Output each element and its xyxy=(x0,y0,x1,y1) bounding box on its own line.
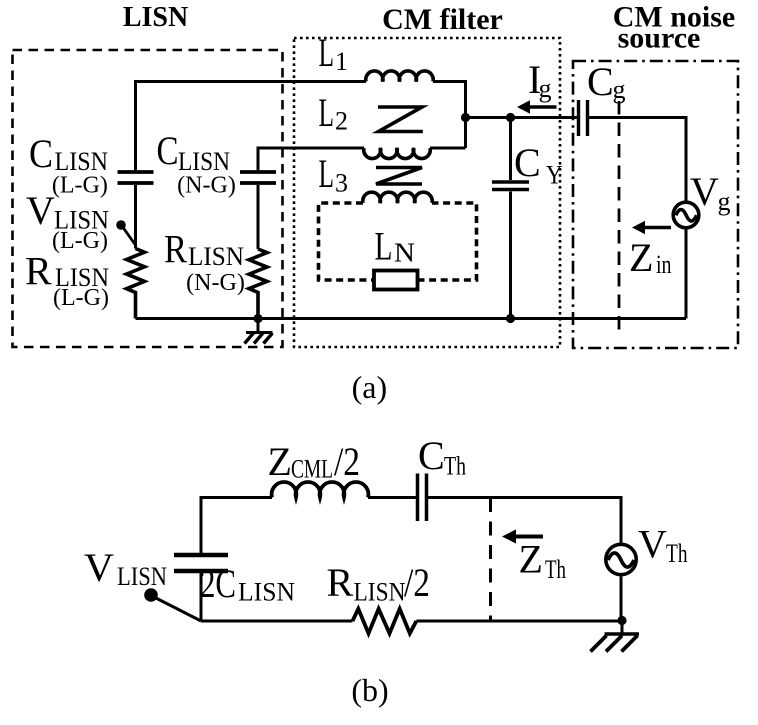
svg-text:(a): (a) xyxy=(352,369,388,405)
resistor RLISN (N-G) xyxy=(249,249,267,319)
svg-text:source: source xyxy=(618,22,701,55)
svg-text:L: L xyxy=(319,90,335,135)
capacitor CLISN (N-G) xyxy=(240,172,276,183)
svg-text:in: in xyxy=(656,250,672,279)
svg-text:Z: Z xyxy=(268,439,292,484)
svg-text:C: C xyxy=(514,140,541,185)
svg-text:C: C xyxy=(29,131,53,176)
svg-text:2C: 2C xyxy=(200,561,236,606)
svg-text:V: V xyxy=(690,169,719,214)
inductor LN (rectangle) xyxy=(374,271,418,290)
coupling mark Z1 (L1-L2) xyxy=(378,107,423,132)
wire: L2 right to node column xyxy=(430,147,466,150)
ground (a) xyxy=(257,319,260,333)
resistor RLISN/2 xyxy=(353,609,417,634)
capacitor CLISN (L-G) xyxy=(118,172,154,183)
svg-text:LISN: LISN xyxy=(117,562,167,591)
node B junction dot xyxy=(506,113,515,122)
svg-text:(L-G): (L-G) xyxy=(53,285,109,311)
svg-text:R: R xyxy=(327,560,354,605)
bottom wire (b) left xyxy=(201,620,353,623)
wire cap to resistor (L-G) xyxy=(134,185,137,249)
svg-text:/2: /2 xyxy=(404,560,430,605)
svg-text:Th: Th xyxy=(545,555,566,584)
svg-text:Z: Z xyxy=(519,537,543,582)
svg-text:V: V xyxy=(638,522,667,567)
svg-text:(b): (b) xyxy=(351,672,388,708)
svg-text:g: g xyxy=(718,187,731,216)
svg-text:N: N xyxy=(394,238,415,268)
wire Cg to right corner xyxy=(589,118,686,201)
Zin arrow xyxy=(642,226,671,230)
svg-text:LISN: LISN xyxy=(354,578,406,607)
capacitor CY xyxy=(509,118,512,181)
svg-text:2: 2 xyxy=(335,107,348,136)
svg-text:LISN: LISN xyxy=(238,578,295,607)
LISN box (dashed) xyxy=(13,50,283,347)
svg-text:Y: Y xyxy=(546,161,563,190)
svg-text:Th: Th xyxy=(444,452,466,481)
inductor L3 xyxy=(363,192,432,203)
bottom wire (a) xyxy=(136,317,687,320)
svg-text:L: L xyxy=(319,151,335,196)
wire: line L top (left vertical + horizontal to L1) xyxy=(136,82,367,173)
svg-text:C: C xyxy=(418,433,445,478)
svg-text:C: C xyxy=(587,59,614,104)
svg-text:CM filter: CM filter xyxy=(382,3,503,36)
coupling mark Z2 (L2-L3) xyxy=(376,168,422,185)
inductor L2 xyxy=(364,148,431,159)
CM noise source box (dash-dot) xyxy=(573,61,738,348)
node A junction dot xyxy=(461,113,470,122)
svg-text:(N-G): (N-G) xyxy=(177,173,236,199)
svg-text:R: R xyxy=(164,227,187,272)
top wire (b) left xyxy=(201,498,272,554)
source VTh xyxy=(606,544,636,574)
svg-text:V: V xyxy=(84,545,114,590)
svg-text:(L-G): (L-G) xyxy=(52,228,108,254)
svg-text:(N-G): (N-G) xyxy=(186,270,245,296)
svg-text:/2: /2 xyxy=(334,439,360,484)
svg-text:Th: Th xyxy=(666,539,688,568)
node VLISN (L-G) dot + tap xyxy=(116,220,126,230)
junction dot CY-bottom xyxy=(506,314,515,323)
capacitor 2CLISN xyxy=(174,555,228,571)
svg-text:LISN: LISN xyxy=(123,2,188,33)
wire CTh to right corner xyxy=(428,498,621,543)
inductor ZCML/2 xyxy=(272,482,369,498)
CM filter box (dotted) xyxy=(294,38,560,347)
wire coil to CTh xyxy=(368,496,416,499)
svg-text:g: g xyxy=(539,74,552,103)
node VLISN dot + tap xyxy=(144,588,158,602)
wire node A to node B xyxy=(466,116,579,119)
svg-text:L: L xyxy=(375,224,393,269)
inductor L1 xyxy=(366,71,433,82)
wire: line N (left vertical + horizontal to L2) xyxy=(258,148,364,172)
wire: L1 right to node column xyxy=(433,82,466,149)
svg-text:V: V xyxy=(26,188,55,233)
svg-text:g: g xyxy=(613,75,626,104)
ZTh arrow xyxy=(514,535,543,539)
capacitor CTh xyxy=(418,474,427,522)
impedance Zin dashed line xyxy=(618,101,621,331)
svg-text:Z: Z xyxy=(629,235,653,280)
wire cap to resistor (N-G) xyxy=(257,185,260,249)
svg-text:C: C xyxy=(157,128,179,173)
junction dot ground xyxy=(253,314,262,323)
ground (b) xyxy=(621,621,624,634)
svg-text:L: L xyxy=(319,30,335,75)
current Ig arrow xyxy=(527,105,557,109)
svg-text:3: 3 xyxy=(335,169,348,198)
resistor RLISN (L-G) xyxy=(127,249,145,319)
bottom wire (b) right xyxy=(416,620,622,623)
wire VTh to bottom xyxy=(620,577,623,621)
wire cap to bottom corner xyxy=(200,573,203,621)
impedance ZTh dashed line xyxy=(489,498,492,621)
wire Vg to bottom xyxy=(685,230,688,319)
svg-text:CML: CML xyxy=(291,455,333,484)
LN loop box (dashed) xyxy=(319,203,477,280)
svg-text:R: R xyxy=(25,249,52,294)
svg-text:LISN: LISN xyxy=(188,242,244,271)
svg-text:(L-G): (L-G) xyxy=(52,173,108,199)
source Vg xyxy=(673,202,699,228)
svg-text:1: 1 xyxy=(335,47,348,76)
capacitor Cg xyxy=(579,100,588,136)
junction dot (b) ground xyxy=(617,616,626,625)
